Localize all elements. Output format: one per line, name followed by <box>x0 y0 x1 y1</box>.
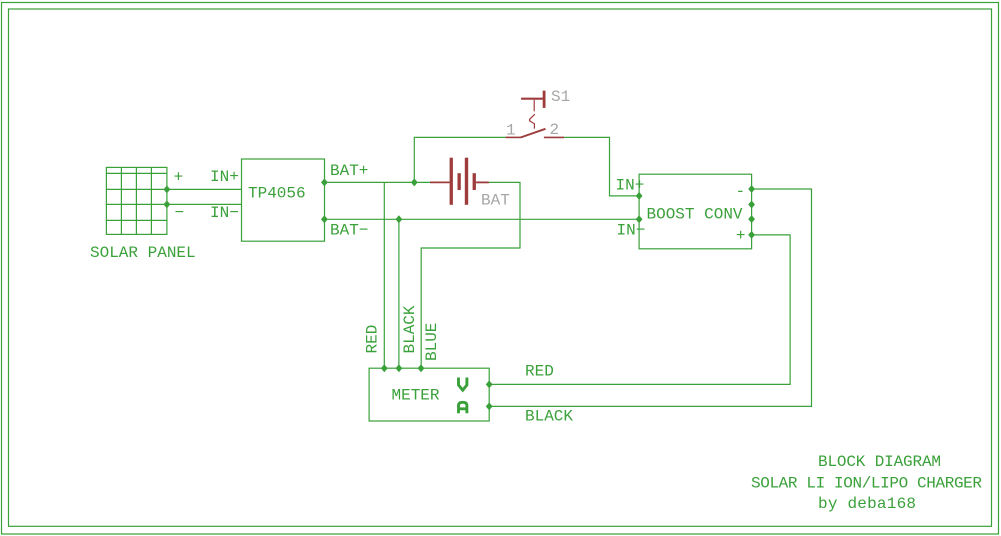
node junction BAT-/BLACK <box>396 215 403 223</box>
label S1 <box>551 88 570 106</box>
battery BAT plate long 2 <box>465 158 468 205</box>
switch S1 throw stub <box>544 136 564 138</box>
wire panel+ to IN+ <box>167 188 242 190</box>
pin label IN+ (boost) <box>616 177 645 195</box>
block METER <box>369 368 489 421</box>
svg-text:BLUE: BLUE <box>423 323 441 361</box>
wire BAT+ to battery <box>324 181 430 183</box>
block BOOST CONV <box>639 174 752 249</box>
node BAT- pin <box>321 215 328 223</box>
node meter out V <box>486 380 493 388</box>
svg-text:by deba168: by deba168 <box>818 495 916 513</box>
solar panel <box>106 167 166 234</box>
node meter in BLUE <box>418 364 425 372</box>
switch S1 lever <box>521 129 546 138</box>
svg-text:BLACK: BLACK <box>401 305 419 353</box>
wire BLUE (battery+ to meter) <box>421 182 520 368</box>
pin label + (boost out) <box>736 227 746 245</box>
wire switch pin1 branch <box>414 137 505 182</box>
label V <box>459 378 467 391</box>
pin label 2 <box>550 121 560 139</box>
node boost IN+ <box>636 192 643 200</box>
svg-text:SOLAR PANEL: SOLAR PANEL <box>90 244 196 262</box>
pin label IN- (boost) <box>617 221 646 239</box>
net label RED (meter V wire) <box>525 362 554 380</box>
net label RED (vertical) <box>364 325 382 354</box>
svg-text:RED: RED <box>364 325 382 354</box>
battery BAT right lead <box>476 181 489 183</box>
node boost IN- <box>636 215 643 223</box>
pin label 1 <box>506 122 516 140</box>
wire BAT- bus to boost IN- <box>324 218 639 220</box>
battery BAT left lead <box>430 181 450 183</box>
svg-text:S1: S1 <box>551 88 570 106</box>
svg-text:BLOCK DIAGRAM: BLOCK DIAGRAM <box>818 453 941 471</box>
svg-text:METER: METER <box>392 386 440 404</box>
pin label IN- (TP4056) <box>210 204 239 222</box>
node boost out 2 <box>748 201 755 209</box>
node panel+ <box>164 185 171 193</box>
svg-text:RED: RED <box>525 362 554 380</box>
wire boost - to meter A <box>489 189 811 406</box>
svg-text:BAT: BAT <box>481 192 510 210</box>
svg-text:IN−: IN− <box>617 221 646 239</box>
wire BLACK (BAT- to meter) <box>398 219 400 368</box>
node boost out - <box>748 185 755 193</box>
label SOLAR PANEL <box>90 244 196 262</box>
svg-text:−: − <box>175 204 185 222</box>
pin label BAT- <box>330 222 368 240</box>
net label BLACK (meter A wire) <box>525 407 573 425</box>
svg-text:+: + <box>736 227 746 245</box>
svg-text:IN−: IN− <box>210 204 239 222</box>
battery BAT plate short 2 <box>473 173 476 190</box>
title by deba168 <box>818 495 916 513</box>
switch S1 pole stub <box>506 136 521 138</box>
label BAT <box>481 192 510 210</box>
label - (panel negative) <box>175 204 185 222</box>
node meter in RED <box>381 364 388 372</box>
node meter in BLACK <box>396 364 403 372</box>
pin label BAT+ <box>330 162 368 180</box>
pin label - (boost out) <box>736 183 746 201</box>
wire panel- to IN- <box>167 203 242 205</box>
svg-text:IN+: IN+ <box>210 168 239 186</box>
node boost out + <box>748 231 755 239</box>
svg-text:2: 2 <box>550 121 560 139</box>
svg-text:SOLAR LI ION/LIPO CHARGER: SOLAR LI ION/LIPO CHARGER <box>751 475 982 493</box>
wire boost + to meter V <box>489 235 790 385</box>
wire RED (BAT+ to meter) <box>383 182 385 368</box>
node BAT+ pin <box>321 178 328 186</box>
label TP4056 <box>248 185 306 203</box>
svg-text:BAT+: BAT+ <box>330 162 368 180</box>
svg-text:-: - <box>736 183 746 201</box>
node junction BAT+/switch/battery <box>411 178 418 186</box>
battery BAT plate short 1 <box>458 173 461 190</box>
title BLOCK DIAGRAM <box>818 453 941 471</box>
node panel- <box>164 200 171 208</box>
svg-text:BOOST CONV: BOOST CONV <box>647 205 743 223</box>
label A <box>459 402 467 413</box>
svg-text:BLACK: BLACK <box>525 407 573 425</box>
svg-text:IN+: IN+ <box>616 177 645 195</box>
battery BAT plate long 1 <box>450 158 453 205</box>
svg-text:TP4056: TP4056 <box>248 185 306 203</box>
title SOLAR LI ION/LIPO CHARGER <box>751 475 982 493</box>
pin label IN+ (TP4056) <box>210 168 239 186</box>
svg-text:1: 1 <box>506 122 516 140</box>
block TP4056 <box>242 159 325 241</box>
switch S1 stem <box>530 100 535 129</box>
label + (panel positive) <box>174 169 184 187</box>
svg-text:BAT−: BAT− <box>330 222 368 240</box>
svg-text:+: + <box>174 169 184 187</box>
node meter out A <box>486 402 493 410</box>
label METER <box>392 386 440 404</box>
switch S1 plunger cap <box>521 91 544 108</box>
node boost out 3 <box>748 215 755 223</box>
label BOOST CONV <box>647 205 743 223</box>
net label BLUE (vertical) <box>423 323 441 361</box>
wire switch pin2 to boost IN+ <box>564 137 639 196</box>
net label BLACK (vertical) <box>401 305 419 353</box>
